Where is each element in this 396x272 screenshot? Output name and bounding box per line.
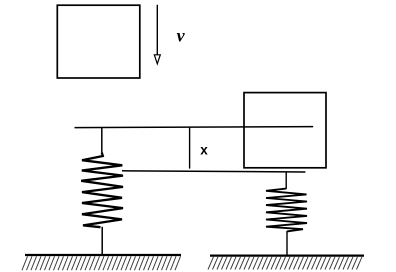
displacement dimension line x: [189, 128, 191, 169]
beam upper reference line: [75, 127, 314, 128]
svg-text:v: v: [177, 26, 186, 46]
left spring lower stub: [101, 227, 103, 255]
svg-text:x: x: [200, 143, 208, 158]
left spring upper stub: [101, 127, 103, 152]
mass block M2 (right square): [244, 93, 326, 168]
velocity arrow open head: [154, 55, 160, 64]
falling mass block (top-left square): [57, 5, 140, 78]
left ground hatching: [22, 256, 28, 270]
velocity arrow shaft: [156, 5, 158, 55]
right spring lower stub: [286, 231, 288, 255]
spring K2 (right spring): [266, 189, 307, 232]
spring K1 (left spring): [81, 153, 123, 228]
right spring upper stub: [285, 172, 287, 189]
right ground line: [210, 255, 364, 257]
left ground line: [25, 254, 181, 256]
beam lower line: [122, 171, 305, 172]
right ground hatching: [208, 257, 214, 270]
